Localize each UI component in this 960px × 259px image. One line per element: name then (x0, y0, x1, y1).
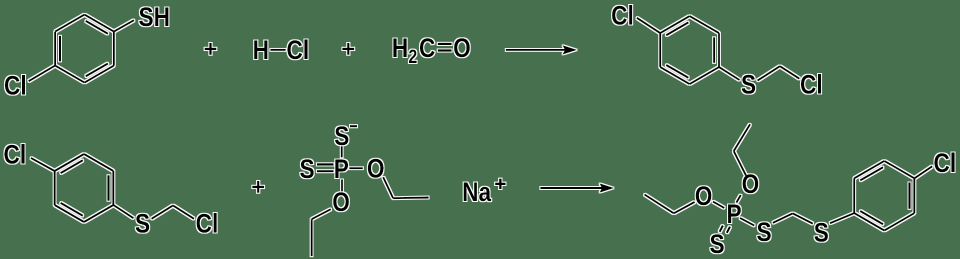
svg-text:S: S (135, 208, 150, 238)
svg-text:Cl: Cl (287, 35, 310, 65)
svg-text:SH: SH (139, 2, 170, 32)
svg-text:Na: Na (462, 177, 492, 207)
svg-text:S: S (741, 70, 756, 100)
svg-text:S: S (299, 154, 314, 184)
svg-text:O: O (332, 187, 350, 217)
svg-text:Cl: Cl (800, 69, 823, 99)
svg-text:Cl: Cl (3, 140, 26, 170)
svg-text:O: O (742, 169, 760, 199)
svg-text:Cl: Cl (196, 208, 219, 238)
svg-text:H: H (253, 35, 269, 65)
svg-text:O: O (367, 154, 385, 184)
svg-text:2: 2 (408, 46, 417, 68)
svg-text:H: H (392, 33, 408, 63)
svg-text:Cl: Cl (4, 70, 27, 100)
svg-text:C: C (419, 33, 435, 63)
svg-text:Cl: Cl (933, 148, 956, 178)
svg-text:S: S (756, 217, 771, 247)
svg-text:S: S (814, 218, 829, 248)
svg-text:P: P (727, 199, 742, 229)
svg-text:Cl: Cl (611, 1, 634, 31)
svg-text:O: O (453, 33, 471, 63)
svg-text:O: O (695, 181, 713, 211)
svg-text:P: P (334, 154, 349, 184)
svg-text:S: S (334, 121, 349, 151)
svg-text:S: S (709, 229, 724, 259)
